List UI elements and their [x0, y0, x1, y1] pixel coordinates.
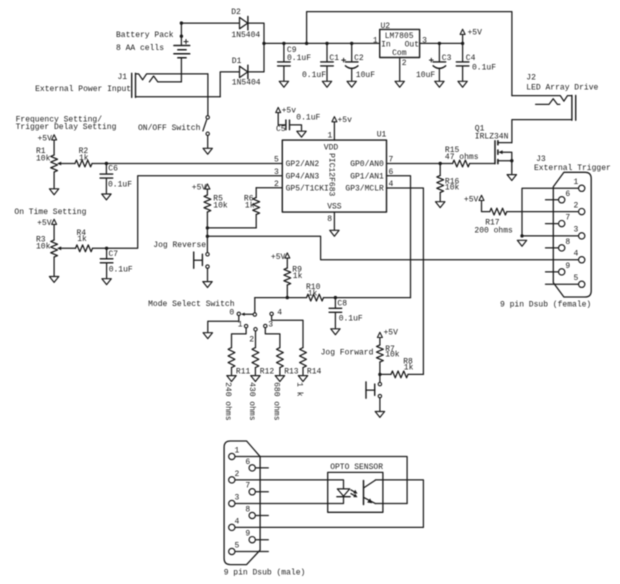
- svg-text:C6: C6: [108, 165, 118, 174]
- capacitor C3 10uF: [416, 43, 452, 81]
- ground: [227, 376, 236, 382]
- svg-text:J2: J2: [526, 73, 536, 82]
- svg-text:+5v: +5v: [338, 116, 353, 125]
- wire R15 to Q1 gate: [470, 163, 495, 165]
- svg-text:0.1uF: 0.1uF: [287, 54, 311, 63]
- junction: [105, 162, 108, 165]
- svg-text:C1: C1: [329, 54, 339, 63]
- connector J2 LED Array Drive jack: [512, 73, 599, 142]
- svg-text:Trigger Delay Setting: Trigger Delay Setting: [16, 123, 117, 132]
- svg-text:10uF: 10uF: [356, 71, 375, 80]
- svg-text:LED Array Drive: LED Array Drive: [526, 84, 598, 93]
- resistor R15 47 ohms: [445, 146, 479, 167]
- svg-text:2: 2: [249, 335, 254, 344]
- wire U2 Com pin 2 to ground: [399, 58, 401, 82]
- capacitor C6 0.1uF: [100, 164, 132, 195]
- svg-text:10k: 10k: [36, 154, 51, 163]
- svg-text:2: 2: [402, 59, 407, 68]
- optocoupler OPTO SENSOR: [328, 463, 384, 512]
- svg-text:200 ohms: 200 ohms: [474, 226, 513, 235]
- junction: [206, 226, 209, 229]
- capacitor C2 10uF: [342, 43, 376, 81]
- svg-text:0: 0: [229, 309, 234, 318]
- capacitor C1 0.1uF: [302, 43, 339, 81]
- junction: [378, 373, 381, 376]
- pushbutton Jog Forward: [366, 382, 382, 412]
- power +5V at R5: [192, 184, 210, 195]
- resistor R17 200 ohms: [474, 208, 513, 235]
- svg-text:+5V: +5V: [192, 184, 207, 193]
- ground: [297, 131, 306, 137]
- resistor R13 680 ohms: [271, 348, 298, 421]
- svg-text:+5V: +5V: [37, 134, 52, 143]
- ground: [203, 148, 212, 154]
- wire mode position 3 to R13: [265, 328, 280, 348]
- svg-text:GP0/AN0: GP0/AN0: [350, 160, 384, 169]
- svg-text:On Time Setting: On Time Setting: [14, 208, 86, 217]
- svg-text:8: 8: [565, 238, 570, 247]
- wire male pin 1 to opto emitter: [235, 457, 407, 504]
- svg-text:R14: R14: [307, 367, 322, 376]
- svg-text:External Power Input: External Power Input: [35, 85, 131, 94]
- svg-text:2: 2: [573, 202, 578, 211]
- svg-text:7: 7: [245, 482, 250, 491]
- battery Battery Pack 8 AA cells: [116, 31, 190, 58]
- svg-text:10k: 10k: [213, 201, 228, 210]
- wire D1 cathode to main rail: [248, 43, 264, 72]
- wire mode position 2 to R12: [255, 331, 257, 347]
- svg-text:GP5/T1CKI: GP5/T1CKI: [286, 185, 329, 194]
- svg-text:1k: 1k: [245, 201, 255, 210]
- junction: [439, 162, 442, 165]
- svg-text:0.1uF: 0.1uF: [109, 265, 133, 274]
- wire opto collector to male pin 4: [235, 480, 423, 528]
- wire main rail D junction to U2 In: [264, 42, 380, 44]
- svg-text:7: 7: [565, 213, 570, 222]
- svg-text:10k: 10k: [36, 243, 51, 252]
- connector J3 9 pin Dsub (female): [500, 172, 591, 309]
- wire R10 to C8 node to pin6 drop: [324, 297, 411, 299]
- svg-text:9 pin Dsub (male): 9 pin Dsub (male): [224, 569, 306, 578]
- capacitor C9 0.1uF: [278, 43, 312, 81]
- ground: [275, 376, 284, 382]
- regulator U2 LM7805: [373, 22, 427, 68]
- wire mode position 4 to R14: [272, 316, 303, 348]
- junction: [262, 42, 265, 45]
- ground: [203, 333, 212, 339]
- svg-text:J1: J1: [118, 73, 128, 82]
- svg-text:8: 8: [327, 215, 332, 224]
- ground: [279, 81, 288, 87]
- node annotation Frequency Setting: [16, 115, 117, 132]
- svg-text:GP2/AN2: GP2/AN2: [286, 160, 320, 169]
- junction: [206, 235, 209, 238]
- svg-text:U2: U2: [381, 22, 391, 31]
- wire top loop rail to J2: [307, 12, 512, 96]
- wire jog reverse node to J3 pin 4 run: [207, 236, 578, 259]
- svg-text:Battery Pack: Battery Pack: [116, 31, 174, 40]
- svg-text:1N5404: 1N5404: [231, 31, 260, 40]
- svg-text:1: 1: [373, 36, 378, 45]
- diode D1 1N5404: [232, 57, 261, 87]
- power +5v at U1 VDD pin 1: [332, 116, 352, 140]
- svg-text:R13: R13: [284, 367, 299, 376]
- svg-text:GP4/AN3: GP4/AN3: [286, 172, 320, 181]
- svg-text:3: 3: [422, 36, 427, 45]
- svg-text:R12: R12: [260, 367, 275, 376]
- junction: [105, 247, 108, 250]
- resistor R9 1k: [284, 265, 303, 297]
- svg-text:R11: R11: [236, 367, 251, 376]
- resistor R4 1k: [76, 229, 93, 252]
- power +5V at C4: [460, 29, 482, 44]
- ground: [203, 282, 212, 288]
- svg-text:+5V: +5V: [37, 219, 52, 228]
- wire mode select node: [255, 297, 307, 299]
- capacitor C8 0.1uF: [329, 298, 363, 329]
- wire R6 top to U1 pin 2: [256, 187, 282, 189]
- wire R1 wiper to R2: [61, 163, 75, 165]
- svg-text:5: 5: [235, 541, 240, 550]
- ground: [458, 81, 467, 87]
- wire J1 tip to D1 anode: [220, 72, 239, 97]
- svg-text:U1: U1: [377, 131, 387, 140]
- ground: [102, 279, 111, 285]
- svg-text:9 pin Dsub (female): 9 pin Dsub (female): [500, 301, 591, 310]
- resistor R16 10k: [437, 164, 460, 202]
- svg-text:In: In: [381, 41, 391, 50]
- svg-text:10k: 10k: [385, 351, 400, 360]
- svg-text:Com: Com: [392, 49, 407, 58]
- svg-text:430 ohms: 430 ohms: [247, 382, 256, 421]
- svg-text:6: 6: [565, 190, 570, 199]
- svg-text:Jog Forward: Jog Forward: [321, 349, 374, 358]
- junction: [350, 42, 353, 45]
- svg-text:D1: D1: [232, 57, 242, 66]
- connector 9 pin Dsub (male): [224, 441, 306, 578]
- svg-text:Out: Out: [405, 41, 419, 50]
- resistor R12 430 ohms: [247, 348, 274, 421]
- resistor R10 1k: [306, 283, 324, 301]
- svg-text:1: 1: [235, 446, 240, 455]
- junction: [510, 159, 513, 162]
- svg-text:J3: J3: [536, 155, 546, 164]
- svg-text:GP1/AN1: GP1/AN1: [350, 172, 384, 181]
- svg-text:+5V: +5V: [464, 196, 479, 205]
- ground: [102, 194, 111, 200]
- svg-text:9: 9: [245, 530, 250, 539]
- wire male pin 3 to opto LED cathode: [235, 497, 344, 504]
- svg-text:1k: 1k: [404, 363, 414, 372]
- svg-text:IRLZ34N: IRLZ34N: [475, 133, 509, 142]
- ground: [251, 376, 260, 382]
- ground: [347, 81, 356, 87]
- svg-text:3: 3: [235, 493, 240, 502]
- resistor R8 1k: [380, 358, 424, 378]
- wire battery negative to J1 ring contact: [180, 58, 182, 82]
- junction: [438, 42, 441, 45]
- resistor R11 240 ohms: [223, 348, 250, 421]
- svg-text:6: 6: [245, 458, 250, 467]
- junction: [286, 296, 289, 299]
- svg-text:1k: 1k: [308, 289, 318, 298]
- svg-text:10uF: 10uF: [416, 71, 435, 80]
- svg-text:1: 1: [327, 131, 332, 140]
- wire ground tie to J3 pin 3: [522, 235, 579, 237]
- wire U2 Out to +5V node: [420, 42, 463, 44]
- svg-text:C2: C2: [354, 54, 364, 63]
- wire U1 pin 4 GP3/MCLR down to R8: [387, 188, 424, 374]
- junction: [334, 296, 337, 299]
- svg-text:0.1uF: 0.1uF: [296, 114, 320, 123]
- wire mode position 1 to R11: [232, 328, 247, 348]
- svg-text:External Trigger: External Trigger: [534, 164, 611, 173]
- svg-text:3: 3: [573, 226, 578, 235]
- switch S1 ON/OFF Switch: [138, 74, 209, 148]
- svg-text:7: 7: [389, 156, 394, 165]
- svg-text:ON/OFF Switch: ON/OFF Switch: [138, 124, 201, 133]
- wire U1 pin 6 GP1/AN1 to mode node: [387, 176, 411, 298]
- svg-text:47 ohms: 47 ohms: [445, 153, 479, 162]
- ground: [507, 175, 516, 181]
- power +5V at R7: [377, 329, 398, 345]
- svg-text:Mode Select Switch: Mode Select Switch: [148, 300, 235, 309]
- ground: [436, 202, 445, 208]
- svg-text:1 k: 1 k: [295, 382, 304, 397]
- ground: [435, 81, 444, 87]
- svg-text:9: 9: [565, 262, 570, 271]
- power +5V at R3: [37, 219, 57, 240]
- svg-text:10k: 10k: [445, 184, 460, 193]
- resistor R7 10k: [321, 345, 400, 383]
- svg-text:+5v: +5v: [282, 107, 297, 116]
- junction: [180, 35, 183, 38]
- power +5V at R17: [464, 195, 490, 211]
- wire R5 R6 bottoms joined: [207, 227, 256, 229]
- wire mode position 0 to ground: [208, 316, 239, 333]
- ground: [517, 240, 526, 246]
- svg-text:240 ohms: 240 ohms: [223, 382, 232, 421]
- switch Mode Select Switch rotary: [148, 298, 282, 345]
- svg-text:0.1uF: 0.1uF: [108, 181, 132, 190]
- wire R2 to C6 node to U1 pin 5: [92, 163, 282, 165]
- wire U1 VSS pin 8 to ground: [333, 212, 335, 230]
- capacitor C4 0.1uF: [456, 43, 496, 81]
- ground: [331, 329, 340, 335]
- power +5v at C5: [276, 107, 297, 116]
- svg-text:+5V: +5V: [468, 29, 483, 38]
- svg-text:VDD: VDD: [324, 144, 339, 153]
- wire R4 to C7 node up to U1 pin 3: [93, 176, 283, 249]
- wire battery positive to D2 anode: [181, 23, 239, 45]
- svg-text:VSS: VSS: [327, 203, 342, 212]
- junction: [520, 234, 523, 237]
- svg-text:680 ohms: 680 ohms: [271, 382, 280, 421]
- svg-text:8: 8: [245, 505, 250, 514]
- ground: [395, 81, 404, 87]
- svg-text:1: 1: [573, 178, 578, 187]
- ground: [49, 189, 58, 195]
- capacitor C5 0.1uF bypass: [276, 113, 321, 134]
- svg-text:5: 5: [573, 274, 578, 283]
- resistor R14 1 k: [295, 348, 322, 397]
- junction: [305, 42, 308, 45]
- svg-text:0.1uF: 0.1uF: [339, 314, 363, 323]
- ground: [49, 277, 58, 283]
- resistor R2 1k: [75, 147, 92, 167]
- ground: [298, 376, 307, 382]
- svg-text:C3: C3: [442, 54, 452, 63]
- connector J1 External Power Input jack: [35, 73, 220, 97]
- wire PIC GP0 to R15: [387, 163, 453, 165]
- svg-text:1: 1: [238, 321, 243, 330]
- svg-text:OPTO SENSOR: OPTO SENSOR: [330, 463, 383, 472]
- wire J3 pin 1 to ground tie: [522, 188, 579, 236]
- diode D2 1N5404: [231, 8, 260, 40]
- ground: [375, 412, 384, 418]
- wire R17 to J3 pin 2: [507, 211, 579, 213]
- IC U1 PIC12F683: [274, 131, 394, 224]
- svg-text:3: 3: [268, 321, 273, 330]
- svg-text:GP3/MCLR: GP3/MCLR: [345, 185, 384, 194]
- wire D2 cathode to main rail: [248, 23, 264, 43]
- svg-text:C5: C5: [276, 125, 286, 134]
- svg-text:+5V: +5V: [271, 253, 286, 262]
- svg-text:1k: 1k: [79, 154, 89, 163]
- ground: [322, 81, 331, 87]
- junction: [461, 42, 464, 45]
- svg-text:1N5404: 1N5404: [232, 79, 261, 88]
- svg-text:4: 4: [573, 250, 578, 259]
- svg-text:2: 2: [235, 470, 240, 479]
- power +5V at R9: [271, 253, 290, 268]
- potentiometer R3 10k: [36, 235, 61, 276]
- capacitor C7 0.1uF: [100, 248, 133, 278]
- svg-text:4: 4: [235, 517, 240, 526]
- wire opto emitter: [375, 503, 407, 505]
- resistor R6 1k: [244, 188, 260, 228]
- svg-text:D2: D2: [231, 8, 241, 17]
- resistor R5 10k: [204, 195, 228, 253]
- junction: [325, 42, 328, 45]
- junction: [282, 42, 285, 45]
- node annotation J3 External Trigger: [534, 155, 611, 173]
- junction: [180, 21, 183, 24]
- svg-text:0.1uF: 0.1uF: [302, 71, 326, 80]
- wire R3 wiper to R4: [61, 247, 75, 249]
- svg-text:4: 4: [277, 309, 282, 318]
- svg-text:1k: 1k: [77, 235, 87, 244]
- svg-text:C7: C7: [109, 250, 119, 259]
- svg-text:1k: 1k: [293, 272, 303, 281]
- svg-text:+5V: +5V: [384, 329, 399, 338]
- svg-text:C4: C4: [466, 54, 476, 63]
- ground: [330, 230, 339, 236]
- svg-text:0.1uF: 0.1uF: [472, 64, 496, 73]
- svg-text:8 AA cells: 8 AA cells: [116, 44, 164, 53]
- svg-text:Jog Reverse: Jog Reverse: [153, 241, 206, 250]
- wire male pin 2 to opto LED anode: [235, 480, 344, 489]
- power +5V at R1: [37, 134, 56, 155]
- svg-text:C8: C8: [337, 300, 347, 309]
- potentiometer R1 10k: [36, 147, 61, 189]
- pushbutton Jog Reverse: [153, 241, 209, 281]
- transistor Q1 IRLZ34N: [475, 125, 512, 175]
